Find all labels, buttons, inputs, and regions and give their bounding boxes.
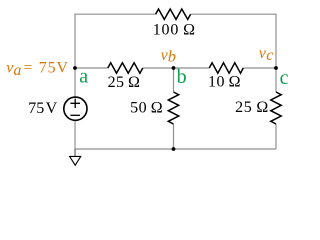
wire c down (275, 68, 277, 92)
svg-text:c: c (280, 67, 289, 89)
node b junction dot (172, 66, 176, 70)
minus sign (70, 114, 80, 116)
svg-text:75V: 75V (39, 59, 69, 76)
svg-text:=: = (23, 59, 32, 76)
plus sign (70, 99, 80, 108)
wire a to b (75, 67, 108, 69)
wire source down to bottom (74, 121, 76, 149)
node label va = 75V (orange) (6, 59, 69, 79)
junction dot bottom below b (172, 147, 176, 151)
ground (70, 149, 81, 165)
node a junction dot (73, 66, 77, 70)
voltage source V1 75V circle (64, 97, 87, 120)
svg-text:a: a (79, 66, 88, 88)
svg-text:a: a (13, 62, 21, 79)
wire (243, 67, 276, 69)
svg-text:b: b (177, 66, 187, 88)
node label vc (orange) (259, 45, 274, 64)
wire b to c (174, 67, 210, 69)
wire a down to source (74, 68, 76, 97)
svg-text:100 Ω: 100 Ω (153, 22, 196, 39)
wire top right segment (191, 14, 276, 68)
wire b down (173, 68, 175, 92)
svg-text:25 Ω: 25 Ω (108, 74, 141, 91)
wire bottom (75, 148, 276, 150)
svg-text:10 Ω: 10 Ω (208, 74, 241, 91)
svg-text:25 Ω: 25 Ω (235, 99, 269, 116)
resistor R2 25 ohm (a-b) (108, 63, 143, 73)
resistor R3 10 ohm (b-c) (209, 63, 243, 73)
svg-text:50 Ω: 50 Ω (130, 100, 163, 117)
node c junction dot (274, 66, 278, 70)
wire top from node a up and across to node c (75, 14, 156, 68)
wire (173, 124, 175, 149)
resistor R5 25 ohm (c to ground) (271, 92, 281, 124)
resistor R1 100 ohm (top) (156, 9, 191, 19)
svg-text:c: c (266, 47, 273, 64)
node label vb (orange) (161, 47, 176, 66)
resistor R4 50 ohm (b to ground) (168, 92, 178, 124)
wire (275, 124, 277, 149)
svg-text:b: b (168, 49, 176, 66)
wire (143, 67, 174, 69)
svg-text:75 V: 75 V (28, 100, 57, 117)
